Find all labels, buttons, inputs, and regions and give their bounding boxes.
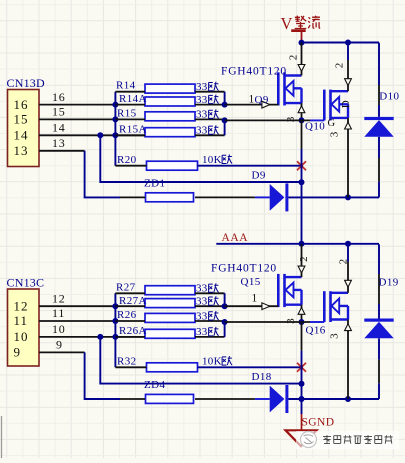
junction <box>112 334 118 340</box>
gate pin lead of Q16 <box>310 321 324 323</box>
svg-text:G: G <box>328 118 336 129</box>
wire: R32 left lead <box>115 366 146 368</box>
pin 3 of Q10 <box>347 118 349 197</box>
svg-text:R14A: R14A <box>119 93 147 105</box>
junction (source/gate node) <box>299 117 305 123</box>
wire: main vertical (upper, pin lead) <box>301 120 303 149</box>
diode D19 <box>364 319 393 339</box>
junction <box>222 319 228 325</box>
svg-text:33: 33 <box>196 326 208 338</box>
pin lead of D10 top <box>378 85 380 105</box>
junction (source meets diode net) <box>345 396 351 402</box>
wire: left bus vertical <box>114 92 116 166</box>
wire: R14 left lead <box>115 91 145 93</box>
pin 2 arrow (Q10) <box>345 79 352 86</box>
svg-text:D18: D18 <box>252 371 272 383</box>
wire: gate bus segment lower <box>224 321 226 337</box>
svg-text:D19: D19 <box>379 277 399 289</box>
svg-text:16: 16 <box>52 90 66 104</box>
wire: CN13D pin 14 <box>39 134 150 136</box>
wire: CN13D pin 13 <box>39 150 85 152</box>
diode D10 <box>364 117 393 137</box>
junction <box>112 303 118 309</box>
junction <box>112 102 118 108</box>
junction (source meets diode net) <box>345 194 351 200</box>
svg-text:AAA: AAA <box>222 232 249 244</box>
value label 10K欧 (R20) <box>202 154 232 166</box>
pin 2 of Q16 <box>347 262 349 293</box>
resistor R14 33欧 <box>145 84 195 93</box>
connector CN13C <box>8 289 40 366</box>
wire: R27 left lead <box>115 292 145 294</box>
svg-text:9: 9 <box>56 338 63 352</box>
junction (SGND node) <box>299 396 305 402</box>
wire: CN13C pin 9 <box>39 351 85 353</box>
wire into D10 <box>378 105 380 117</box>
resistor R27A 33欧 <box>145 299 195 308</box>
pin 3 arrow (Q10) <box>345 122 352 129</box>
transistor Q15 (FGH40T120) <box>278 274 301 307</box>
svg-text:D: D <box>340 100 352 108</box>
junction (AAA) <box>299 241 305 247</box>
wire: pins node to main vertical <box>100 337 301 384</box>
svg-text:FGH40T120: FGH40T120 <box>221 65 287 77</box>
diode D9 <box>270 183 289 211</box>
junction <box>222 102 228 108</box>
wire: D18 cathode to branch <box>288 398 379 400</box>
svg-text:11: 11 <box>52 306 65 320</box>
resistor R26 33欧 <box>145 313 195 322</box>
wire: AAA rail left <box>216 243 301 245</box>
junction <box>222 117 228 123</box>
svg-text:CN13D: CN13D <box>7 76 45 90</box>
pin 3 of Q15 <box>301 305 303 322</box>
wire: R14 right lead <box>195 91 225 93</box>
junction <box>112 116 118 122</box>
wire: D18 anode lead <box>255 398 270 400</box>
junction <box>112 318 118 324</box>
wire: R15A right lead <box>195 134 225 136</box>
wire: to gate of Q10 <box>225 119 310 121</box>
svg-text:13: 13 <box>52 136 66 150</box>
svg-text:ZD1: ZD1 <box>144 177 165 189</box>
wire: CN13C pin 11 <box>39 320 115 322</box>
svg-text:33: 33 <box>196 125 208 137</box>
pin 2 arrow (Q16) <box>345 280 352 287</box>
svg-text:R14: R14 <box>116 80 136 92</box>
wire: gate bus segment upper <box>224 293 226 306</box>
transistor Q16 <box>324 291 348 322</box>
wire: R27A right lead <box>195 305 225 307</box>
zener ZD4 <box>146 394 194 403</box>
svg-text:Q16: Q16 <box>306 324 326 336</box>
wire: R26 left lead <box>115 320 145 322</box>
pin 2 of Q15 <box>301 244 303 277</box>
wire: R20 to main vertical <box>198 165 302 167</box>
watermark text <box>323 435 393 444</box>
svg-text:33: 33 <box>196 310 208 322</box>
pin 2 of Q9 <box>301 43 303 76</box>
junction <box>299 381 305 387</box>
svg-text:3: 3 <box>329 333 341 339</box>
svg-text:2: 2 <box>334 63 346 69</box>
connector CN13D <box>8 90 40 167</box>
svg-text:R26: R26 <box>117 309 137 321</box>
svg-text:33: 33 <box>196 94 208 106</box>
svg-text:14: 14 <box>52 121 66 135</box>
wire: R20 left lead <box>115 165 146 167</box>
svg-text:Q9: Q9 <box>255 94 269 106</box>
wire: rail to D10 <box>378 43 380 85</box>
svg-text:Q15: Q15 <box>241 276 261 288</box>
wire: pin 13 to ZD1 <box>85 151 120 198</box>
svg-text:10K: 10K <box>202 355 222 367</box>
svg-text:3: 3 <box>285 318 297 324</box>
svg-text:12: 12 <box>14 298 29 313</box>
svg-text:33: 33 <box>196 109 208 121</box>
svg-text:2: 2 <box>338 259 350 265</box>
pin 3 arrow (Q9) <box>298 106 305 113</box>
svg-text:D10: D10 <box>379 91 399 103</box>
wire: CN13C pin 10 <box>39 336 150 338</box>
wire: R14A left lead <box>115 104 145 106</box>
watermark panel <box>296 431 399 450</box>
value label 10K欧 (R32) <box>202 355 232 367</box>
svg-text:10K: 10K <box>202 154 222 166</box>
wire: main vertical (mid) <box>301 384 303 399</box>
pin 2 of Q10 <box>347 60 349 91</box>
svg-text:R15: R15 <box>117 108 137 120</box>
svg-text:14: 14 <box>14 128 29 143</box>
svg-text:11: 11 <box>14 313 29 328</box>
wire into D19 <box>378 304 380 319</box>
wire: to SGND <box>301 399 303 414</box>
svg-text:3: 3 <box>329 131 341 137</box>
pin 2 arrow (Q9) <box>298 65 305 72</box>
svg-text:FGH40T120: FGH40T120 <box>211 263 277 275</box>
wire: R15 right lead <box>195 118 225 120</box>
power port V整流 <box>281 14 321 42</box>
zener ZD1 <box>146 193 194 202</box>
wire: CN13D pin 16 <box>39 104 115 106</box>
wire: R26A left lead <box>115 336 145 338</box>
pin lead of D19 top <box>378 274 380 304</box>
wire: D9 anode lead <box>255 196 270 198</box>
resistor R14A 33欧 <box>145 97 195 106</box>
junction (V rail at Q10 branch) <box>345 40 351 46</box>
value label 33欧 (R26A) <box>196 326 219 338</box>
pin 1 arrow (Q15) <box>262 303 270 310</box>
value label 33欧 (R14) <box>196 81 219 93</box>
transistor Q10 <box>324 90 348 121</box>
svg-text:13: 13 <box>14 143 29 158</box>
pin 3 arrow (Q16) <box>345 324 352 331</box>
wire: AAA rail right <box>302 243 380 245</box>
wire: main vertical (upper) <box>301 351 303 384</box>
pin 3 arrow (Q15) <box>298 308 305 315</box>
value label 33欧 (R27A) <box>196 296 219 308</box>
wire: main vertical between sections <box>301 197 303 243</box>
resistor R20 10K欧 <box>147 161 198 170</box>
wire: gate bus segment lower <box>224 119 226 135</box>
wire: ZD4 left lead <box>120 398 145 400</box>
wire: CN13D pin 15 <box>39 118 115 120</box>
wire: rail to D19 <box>378 244 380 274</box>
resistor R26A 33欧 <box>145 329 195 338</box>
wire: R14A right lead <box>195 104 225 106</box>
wire: ZD1 to D9 <box>195 196 255 198</box>
svg-text:33: 33 <box>196 283 208 295</box>
wire: D9 cathode to branch <box>288 196 379 198</box>
svg-text:15: 15 <box>52 105 66 119</box>
svg-text:33: 33 <box>196 296 208 308</box>
value label 33欧 (R15A) <box>196 125 219 137</box>
junction <box>299 179 305 185</box>
resistor R15A 33欧 <box>145 128 195 137</box>
wire: CN13C pin 12 <box>39 305 115 307</box>
pin 3 of Q16 <box>347 320 349 400</box>
resistor R32 10K欧 <box>147 363 198 372</box>
wire: main vertical (upper) <box>301 149 303 182</box>
svg-text:9: 9 <box>14 345 22 360</box>
wire: R26A right lead <box>195 336 225 338</box>
wire: V rail <box>302 42 349 44</box>
power port SGND <box>286 414 335 446</box>
value label 33欧 (R15) <box>196 109 219 121</box>
svg-text:12: 12 <box>52 291 66 305</box>
resistor R15 33欧 <box>145 112 195 121</box>
pin lead of D10 bottom <box>378 158 380 182</box>
no-ERC marker <box>297 363 306 372</box>
svg-text:33: 33 <box>196 81 208 93</box>
svg-text:SGND: SGND <box>302 417 335 429</box>
svg-text:10: 10 <box>14 329 29 344</box>
wire: gate of Q15 <box>225 305 279 307</box>
pin lead of D19 bottom <box>378 360 380 384</box>
svg-text:R20: R20 <box>117 154 137 166</box>
diode D18 <box>270 385 289 413</box>
edge line artifact <box>1 416 3 458</box>
svg-text:ZD4: ZD4 <box>144 379 165 391</box>
svg-text:CN13C: CN13C <box>7 275 45 289</box>
junction <box>97 132 103 138</box>
svg-text:2: 2 <box>288 55 300 61</box>
svg-text:R32: R32 <box>117 356 137 368</box>
wire: R27 right lead <box>195 292 225 294</box>
svg-text:15: 15 <box>14 112 29 127</box>
wire: R15 left lead <box>115 118 145 120</box>
wire: pin 9 to ZD4 <box>85 352 120 399</box>
junction <box>112 132 118 138</box>
resistor R27 33欧 <box>145 286 195 295</box>
transistor Q9 (FGH40T120) <box>278 72 301 105</box>
value label 33欧 (R26) <box>196 310 219 322</box>
junction (AAA rail at Q16 branch) <box>345 241 351 247</box>
svg-text:10: 10 <box>52 322 66 336</box>
svg-text:R27A: R27A <box>119 295 147 307</box>
wire: D19 to diode net <box>378 383 380 399</box>
svg-text:V: V <box>281 14 293 33</box>
junction (source/gate node) <box>299 319 305 325</box>
value label 33欧 (R14A) <box>196 94 219 106</box>
value label 33欧 (R27) <box>196 283 219 295</box>
wire: pins node to main vertical <box>100 135 301 182</box>
wire: gate bus segment upper <box>224 92 226 105</box>
wire: D19 anode down <box>378 338 380 359</box>
svg-text:D9: D9 <box>252 169 266 181</box>
wire: R32 to main vertical <box>198 366 302 368</box>
wire: ZD1 left lead <box>120 196 145 198</box>
wire: R15A left lead <box>115 134 145 136</box>
pin 2 arrow (Q15) <box>298 266 305 273</box>
pin 3 of Q9 <box>301 103 303 120</box>
watermark logo <box>301 432 317 448</box>
wire: main vertical (mid) <box>301 182 303 197</box>
wire: D10 to diode net <box>378 182 380 198</box>
no-ERC marker <box>297 161 306 170</box>
svg-text:2: 2 <box>298 256 310 262</box>
wire: V rail to D10 branch <box>348 42 379 44</box>
wire: R27A left lead <box>115 305 145 307</box>
wire: ZD4 to D18 <box>195 398 255 400</box>
junction (V rail) <box>299 40 305 46</box>
wire: gate of Q9 <box>225 104 279 106</box>
wire: D10 anode down <box>378 137 380 158</box>
pin 1 arrow (Q9) <box>262 101 270 108</box>
wire: rail to Q10 <box>347 43 349 61</box>
svg-text:R27: R27 <box>116 281 136 293</box>
junction <box>222 303 228 309</box>
wire: R26 right lead <box>195 320 225 322</box>
wire: rail to Q16 <box>347 244 349 262</box>
wire: to gate of Q16 <box>225 321 310 323</box>
svg-text:16: 16 <box>14 97 29 112</box>
svg-text:R15A: R15A <box>119 123 147 135</box>
svg-text:3: 3 <box>285 116 297 122</box>
svg-text:R26A: R26A <box>119 325 147 337</box>
wire: left bus vertical <box>114 293 116 367</box>
junction <box>97 334 103 340</box>
svg-text:1: 1 <box>252 293 258 305</box>
svg-text:Q10: Q10 <box>305 121 325 133</box>
gate pin lead of Q10 <box>310 119 324 121</box>
wire: main vertical (upper, pin lead) <box>301 322 303 351</box>
